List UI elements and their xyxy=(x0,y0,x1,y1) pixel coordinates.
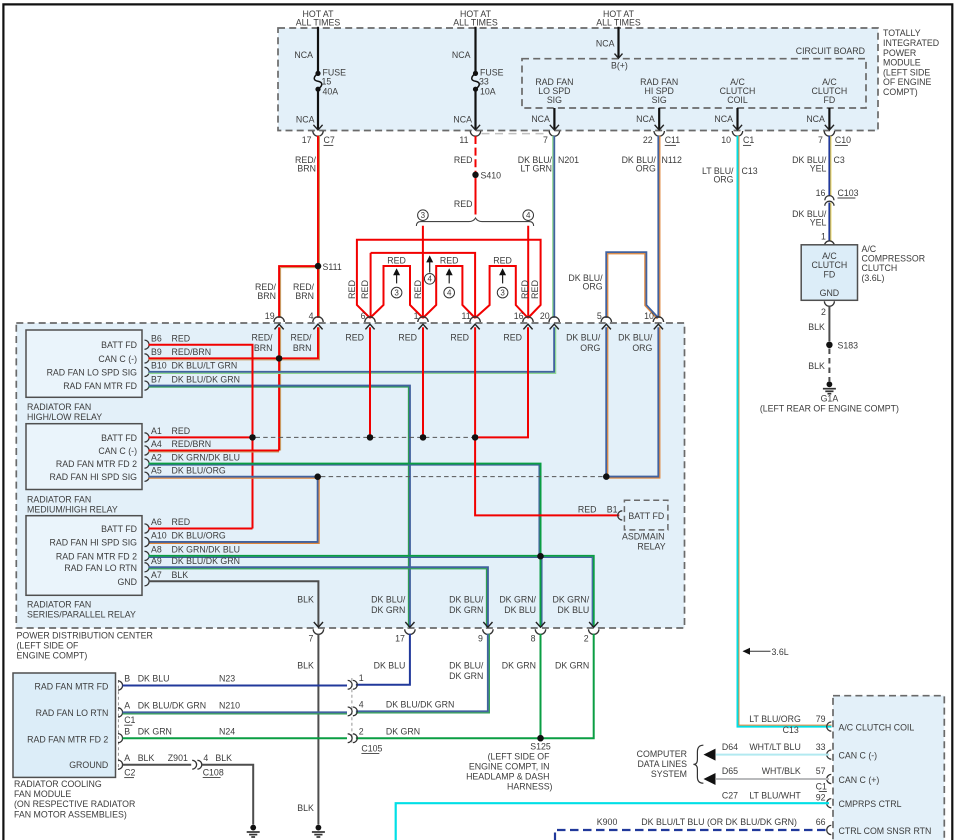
svg-text:3: 3 xyxy=(421,211,426,220)
PDC top pin 11 xyxy=(470,317,480,322)
svg-text:C1: C1 xyxy=(816,781,827,791)
svg-text:2: 2 xyxy=(584,633,589,643)
svg-text:ASD/MAIN: ASD/MAIN xyxy=(622,532,665,542)
svg-text:(ON RESPECTIVE RADIATOR: (ON RESPECTIVE RADIATOR xyxy=(14,799,135,809)
svg-text:B10: B10 xyxy=(151,361,167,371)
Radiator Cooling Fan Module box M1 xyxy=(13,673,116,777)
wire: fuse 33 output NCA to pin 11 xyxy=(474,89,476,129)
svg-text:YEL: YEL xyxy=(810,217,827,227)
svg-text:C27: C27 xyxy=(722,791,738,801)
connector 4 C108 xyxy=(192,760,196,769)
PDC bottom pin 8 xyxy=(536,622,545,627)
Radiator Fan High/Low Relay box K1 xyxy=(26,330,142,397)
wire: DK GRN from PDC pin 2 to splice S125 xyxy=(541,634,594,738)
ground for PDC pin 7 BLK wire xyxy=(316,825,322,831)
wire: RED junction column B6-A1-A6 xyxy=(252,345,254,529)
svg-text:NCA: NCA xyxy=(714,114,733,124)
svg-text:(LEFT REAR OF ENGINE COMPT): (LEFT REAR OF ENGINE COMPT) xyxy=(760,403,899,413)
svg-text:DK BLU/: DK BLU/ xyxy=(566,332,601,342)
svg-text:A: A xyxy=(124,700,130,710)
wire: RAD FAN HI SPD SIG NCA out of circuit board xyxy=(658,108,660,130)
svg-text:DK BLU: DK BLU xyxy=(374,661,406,671)
wire: RED link a (pin 6 to pin 1) xyxy=(370,266,423,318)
svg-text:5: 5 xyxy=(597,311,602,321)
fuse FUSE 15 40A xyxy=(315,71,320,76)
PDC top pin 20 xyxy=(549,317,559,322)
svg-text:RED: RED xyxy=(503,332,522,342)
connector pin CMPRPS CTRL xyxy=(827,799,832,808)
svg-text:1: 1 xyxy=(414,311,419,321)
svg-text:HEADLAMP & DASH: HEADLAMP & DASH xyxy=(466,771,549,781)
svg-text:ORG: ORG xyxy=(580,343,600,353)
PDC top pin 1 xyxy=(418,317,428,322)
svg-text:(LEFT SIDE OF: (LEFT SIDE OF xyxy=(17,641,80,651)
svg-text:BRN: BRN xyxy=(295,291,314,301)
svg-text:DK GRN: DK GRN xyxy=(386,726,420,736)
svg-text:HIGH/LOW RELAY: HIGH/LOW RELAY xyxy=(27,412,102,422)
svg-text:BATT FD: BATT FD xyxy=(101,340,137,350)
svg-text:A7: A7 xyxy=(151,570,162,580)
svg-text:RED/: RED/ xyxy=(251,332,273,342)
svg-text:LT BLU/WHT: LT BLU/WHT xyxy=(749,791,801,801)
wire: DK BLU/YEL C3 from TIPM pin 7 C10 to connector C103 xyxy=(828,136,830,196)
svg-text:DATA LINES: DATA LINES xyxy=(637,759,687,769)
svg-text:S125: S125 xyxy=(530,742,551,752)
svg-text:ALL TIMES: ALL TIMES xyxy=(596,18,641,28)
svg-text:DK GRN: DK GRN xyxy=(449,605,483,615)
wire: DK BLU/ORG risers pins 5 and 10 to bus junction xyxy=(605,327,607,476)
svg-text:DK BLU: DK BLU xyxy=(557,605,589,615)
svg-text:DK BLU/LT GRN: DK BLU/LT GRN xyxy=(172,361,238,371)
svg-text:RED: RED xyxy=(172,333,191,343)
svg-text:WHT/BLK: WHT/BLK xyxy=(762,766,801,776)
svg-text:S111: S111 xyxy=(323,262,342,272)
svg-text:A1: A1 xyxy=(151,426,162,436)
svg-text:BLK: BLK xyxy=(297,803,314,813)
ASD/Main Relay box xyxy=(624,500,668,530)
svg-text:C105: C105 xyxy=(361,743,382,753)
svg-text:10: 10 xyxy=(644,311,654,321)
wire: RED/BRN from A4 to junction xyxy=(149,450,280,452)
svg-text:4: 4 xyxy=(427,275,432,284)
svg-text:B6: B6 xyxy=(151,333,162,343)
PDC top pin 16 xyxy=(523,317,533,322)
wire: RED from TIPM pin 11 to splice S410 (dashed) xyxy=(475,136,477,172)
svg-text:YEL: YEL xyxy=(810,163,827,173)
PDC top pin 4 xyxy=(313,317,323,322)
svg-text:RED: RED xyxy=(493,255,512,265)
svg-text:RAD FAN LO RTN: RAD FAN LO RTN xyxy=(36,708,109,718)
svg-text:RED: RED xyxy=(454,199,473,209)
svg-text:HARNESS): HARNESS) xyxy=(507,781,553,791)
wire: A/C CLUTCH COIL NCA out of circuit board xyxy=(736,108,738,130)
wire: RED/BRN junction down to A4 xyxy=(278,358,280,450)
svg-text:(3.6L): (3.6L) xyxy=(862,273,885,283)
svg-text:A5: A5 xyxy=(151,465,162,475)
svg-text:RAD FAN MTR FD 2: RAD FAN MTR FD 2 xyxy=(56,551,137,561)
svg-text:RAD FAN MTR FD 2: RAD FAN MTR FD 2 xyxy=(56,459,137,469)
svg-text:92: 92 xyxy=(816,793,826,803)
svg-text:2: 2 xyxy=(821,307,826,317)
ground G1A (left rear of engine compt) xyxy=(827,381,833,387)
svg-text:11: 11 xyxy=(461,311,470,321)
PDC top pin 19 xyxy=(274,317,284,322)
wire: RED link b (pin 1 to pin 11) xyxy=(423,266,475,318)
wire: DK BLU/LT GRN from B10 to PDC pin 20 xyxy=(149,327,555,372)
svg-text:RED/BRN: RED/BRN xyxy=(172,439,212,449)
svg-text:33: 33 xyxy=(816,742,826,752)
svg-text:RED: RED xyxy=(530,280,540,300)
svg-text:BATT FD: BATT FD xyxy=(628,511,664,521)
svg-text:RADIATOR COOLING: RADIATOR COOLING xyxy=(14,779,102,789)
svg-text:DK BLU/ORG: DK BLU/ORG xyxy=(172,531,226,541)
wire: DK BLU from PDC pin 17 to connector C105 pin 1 xyxy=(356,634,410,685)
svg-text:RADIATOR FAN: RADIATOR FAN xyxy=(27,494,91,504)
svg-text:RAD FAN HI SPD SIG: RAD FAN HI SPD SIG xyxy=(50,472,138,482)
wire: DK GRN from PDC pin 8 to splice S125 xyxy=(540,634,542,738)
svg-text:6: 6 xyxy=(361,311,366,321)
wire: RED riser pin 16 to bus xyxy=(475,327,528,437)
svg-text:RED/BRN: RED/BRN xyxy=(172,347,212,357)
wire: RED from B6 to junction column xyxy=(149,345,253,438)
svg-text:A: A xyxy=(124,753,130,763)
svg-text:D64: D64 xyxy=(722,742,738,752)
svg-text:A/C CLUTCH COIL: A/C CLUTCH COIL xyxy=(839,722,915,732)
svg-text:G1A: G1A xyxy=(821,393,839,403)
svg-text:CMPRPS CTRL: CMPRPS CTRL xyxy=(839,799,902,809)
wire: RED drop 3 from brace to pin 1 xyxy=(422,226,424,318)
svg-text:NCA: NCA xyxy=(453,115,472,125)
svg-text:C7: C7 xyxy=(324,135,335,145)
svg-text:RED: RED xyxy=(578,504,597,514)
wire: DK BLU/YEL from C103 to A/C compressor clutch pin 1 xyxy=(828,203,830,241)
svg-text:B(+): B(+) xyxy=(611,61,628,71)
splice S125 (left side of engine compt, in headlamp and dash harness) xyxy=(537,735,543,741)
svg-text:C3: C3 xyxy=(834,155,845,165)
svg-text:MODULE: MODULE xyxy=(883,58,921,68)
svg-text:RAD FAN HI SPD SIG: RAD FAN HI SPD SIG xyxy=(50,538,138,548)
svg-text:RED: RED xyxy=(360,280,370,300)
PDC bottom pin 2 xyxy=(589,622,598,627)
svg-text:DK BLU: DK BLU xyxy=(138,674,170,684)
svg-text:C1: C1 xyxy=(743,135,754,145)
svg-text:SYSTEM: SYSTEM xyxy=(651,769,687,779)
connector pin CTRL COM SNSR RTN xyxy=(827,825,832,834)
svg-text:N23: N23 xyxy=(219,674,235,684)
junction A5/A10 xyxy=(315,474,321,480)
svg-text:10: 10 xyxy=(721,135,731,145)
svg-text:RED: RED xyxy=(398,332,417,342)
svg-text:GND: GND xyxy=(820,288,840,298)
svg-text:9: 9 xyxy=(478,633,483,643)
svg-text:RED/: RED/ xyxy=(290,332,312,342)
svg-text:4: 4 xyxy=(203,753,208,763)
svg-text:BLK: BLK xyxy=(172,570,189,580)
distribution brace with circled 3 and 4 xyxy=(416,218,533,226)
svg-text:DK GRN/DK BLU: DK GRN/DK BLU xyxy=(172,452,240,462)
svg-text:BLK: BLK xyxy=(297,594,314,604)
svg-text:LT GRN: LT GRN xyxy=(521,163,552,173)
svg-text:RAD FAN MTR FD: RAD FAN MTR FD xyxy=(63,381,137,391)
svg-text:FAN MOTOR ASSEMBLIES): FAN MOTOR ASSEMBLIES) xyxy=(14,809,127,819)
svg-text:NCA: NCA xyxy=(294,50,313,60)
wire: RED/BRN from B9 to pins 19 and 4 xyxy=(149,327,319,358)
svg-text:DK GRN/: DK GRN/ xyxy=(499,594,536,604)
svg-text:A6: A6 xyxy=(151,517,162,527)
svg-text:RED: RED xyxy=(345,332,364,342)
svg-text:RED: RED xyxy=(450,332,469,342)
wire: DK BLU/LT BLU K900 CTRL COM SNSR RTN (dashed) xyxy=(555,830,829,840)
dashed bus A5 row xyxy=(321,476,606,478)
svg-text:C11: C11 xyxy=(665,135,681,145)
svg-text:SIG: SIG xyxy=(652,95,667,105)
svg-text:A8: A8 xyxy=(151,545,162,555)
wire: RAD FAN LO SPD SIG NCA out of circuit board xyxy=(553,108,555,130)
wire: RED riser pin 6 xyxy=(369,327,371,437)
svg-text:NCA: NCA xyxy=(296,115,315,125)
svg-text:DK GRN/: DK GRN/ xyxy=(553,594,590,604)
svg-text:A2: A2 xyxy=(151,452,162,462)
svg-text:DK GRN: DK GRN xyxy=(449,671,483,681)
wire: feed 3 NCA to circuit board B(+) xyxy=(617,27,619,58)
svg-text:DK BLU/ORG: DK BLU/ORG xyxy=(172,465,226,475)
svg-text:DK BLU/DK GRN: DK BLU/DK GRN xyxy=(172,556,240,566)
svg-text:FD: FD xyxy=(824,270,836,280)
wire: DK BLU/ORG from A5 to junction xyxy=(149,476,318,478)
wire: fuse 15 output NCA to pin 17 xyxy=(317,89,319,129)
wire: RED riser pin 1 xyxy=(422,327,424,437)
svg-text:NCA: NCA xyxy=(531,114,550,124)
svg-text:ALL TIMES: ALL TIMES xyxy=(453,18,498,28)
wire: RED/BRN pin 19 down to B9 junction xyxy=(278,327,280,358)
svg-text:RED: RED xyxy=(520,280,530,300)
svg-text:16: 16 xyxy=(514,311,524,321)
svg-text:20: 20 xyxy=(540,311,550,321)
svg-text:COIL: COIL xyxy=(727,95,748,105)
svg-text:BLK: BLK xyxy=(808,322,825,332)
svg-text:RED: RED xyxy=(172,517,191,527)
svg-text:INTEGRATED: INTEGRATED xyxy=(883,38,939,48)
svg-text:DK BLU/DK GRN: DK BLU/DK GRN xyxy=(172,374,240,384)
wire: RED from A1 to junction column xyxy=(149,436,253,438)
svg-text:DK GRN: DK GRN xyxy=(371,605,405,615)
svg-text:B9: B9 xyxy=(151,347,162,357)
svg-text:B: B xyxy=(124,726,130,736)
junction pin 11 riser on bus xyxy=(472,434,478,440)
Radiator Fan Series/Parallel Relay box K3 xyxy=(26,516,142,596)
svg-text:RAD FAN MTR FD: RAD FAN MTR FD xyxy=(35,682,109,692)
svg-text:SERIES/PARALLEL RELAY: SERIES/PARALLEL RELAY xyxy=(27,610,136,620)
svg-text:ENGINE COMPT): ENGINE COMPT) xyxy=(17,651,88,661)
svg-text:3: 3 xyxy=(500,289,505,298)
wire: BLK from PDC pin 7 to ground xyxy=(317,634,319,825)
svg-text:WHT/LT BLU: WHT/LT BLU xyxy=(749,742,800,752)
A/C compressor clutch box U-AC (3.6L) xyxy=(824,241,834,246)
wire: DK GRN/DK BLU junction down to pin 8 xyxy=(540,556,542,627)
junction on B9 wire at pin 19 drop xyxy=(276,355,282,361)
PDC bottom pin 9 xyxy=(483,622,492,627)
svg-text:RED: RED xyxy=(387,255,406,265)
svg-text:CAN C (-): CAN C (-) xyxy=(839,750,878,760)
splice S410 xyxy=(473,172,479,178)
svg-text:N112: N112 xyxy=(662,155,682,165)
wire: RED bus 2 (pin 6 to pin 11) xyxy=(371,253,476,318)
splice S111 xyxy=(315,263,321,269)
wire: RED drop 4 from brace to pin 16 xyxy=(527,226,529,318)
wire: RED/BRN S111 branch to PDC pin 19 xyxy=(279,266,318,318)
wire: BLK from C108 to ground xyxy=(202,765,253,825)
svg-text:D65: D65 xyxy=(722,766,738,776)
svg-text:MEDIUM/HIGH RELAY: MEDIUM/HIGH RELAY xyxy=(27,504,118,514)
connector pin 17 C7 on TIPM xyxy=(313,131,323,136)
splice S183 xyxy=(826,342,832,348)
svg-text:BRN: BRN xyxy=(297,163,316,173)
svg-text:CAN C (+): CAN C (+) xyxy=(839,775,880,785)
TIPM module box (Totally Integrated Power Module) xyxy=(278,28,878,131)
label arrow circled 4 (drop 3 wire) xyxy=(429,260,431,273)
connector pin 22 C11 on TIPM xyxy=(654,131,664,136)
wire: DK BLU/LT GRN N201 from TIPM pin 7 to PDC pin 20 xyxy=(553,136,555,318)
connector pin 7 C10 on TIPM xyxy=(824,131,834,136)
wire: DK GRN N24 fan module to C105 pin 2 xyxy=(123,737,348,739)
wire: LT BLU/ORG C13 from TIPM pin 10 to A/C clutch coil pin xyxy=(738,136,832,727)
svg-text:4: 4 xyxy=(309,311,314,321)
svg-text:BRN: BRN xyxy=(257,291,276,301)
svg-text:RED: RED xyxy=(172,426,191,436)
svg-text:BRN: BRN xyxy=(254,343,273,353)
svg-text:3: 3 xyxy=(394,289,399,298)
svg-text:C13: C13 xyxy=(742,166,758,176)
wire: DK BLU/ORG junction down to A10 xyxy=(149,477,318,542)
svg-text:FD: FD xyxy=(824,95,836,105)
svg-text:DK BLU/: DK BLU/ xyxy=(449,594,484,604)
svg-text:CAN C (-): CAN C (-) xyxy=(98,354,137,364)
wire: DK GRN/DK BLU from A2 down to pin 8 bus xyxy=(149,464,541,557)
junction bus pins 5/10 xyxy=(603,473,609,479)
connector pin 10 C1 on TIPM xyxy=(732,131,742,136)
connector boundary line pins 11-7 xyxy=(482,133,549,135)
circuit board box inside TIPM xyxy=(522,59,866,108)
wire: WHT/BLK D65 CAN C (+) to computer data lines xyxy=(716,778,829,780)
svg-text:NCA: NCA xyxy=(596,38,615,48)
svg-text:79: 79 xyxy=(816,714,826,724)
PDC top pin 6 xyxy=(365,317,375,322)
svg-text:COMPUTER: COMPUTER xyxy=(637,749,687,759)
svg-text:RAD FAN LO RTN: RAD FAN LO RTN xyxy=(64,563,137,573)
wire: DK BLU/DK GRN from A9 to pin 9 xyxy=(149,567,488,627)
ground for fan module BLK wire xyxy=(250,825,256,831)
svg-text:B: B xyxy=(124,674,130,684)
svg-text:ENGINE COMPT, IN: ENGINE COMPT, IN xyxy=(469,761,550,771)
svg-text:40A: 40A xyxy=(323,87,339,97)
svg-text:A4: A4 xyxy=(151,439,162,449)
svg-text:FAN MODULE: FAN MODULE xyxy=(14,789,71,799)
wire: RED/BRN S111 to PDC pin 4 xyxy=(317,266,319,318)
svg-text:RADIATOR FAN: RADIATOR FAN xyxy=(27,402,91,412)
wire: LT BLU/WHT C27 CMPRPS CTRL xyxy=(396,803,829,840)
svg-text:DK GRN/DK BLU: DK GRN/DK BLU xyxy=(172,545,240,555)
svg-text:57: 57 xyxy=(816,766,826,776)
wire: WHT/LT BLU D64 CAN C (-) to computer data lines xyxy=(716,754,829,756)
svg-text:11: 11 xyxy=(459,135,468,145)
svg-text:C1: C1 xyxy=(124,715,135,725)
svg-text:2: 2 xyxy=(359,726,364,736)
svg-text:GROUND: GROUND xyxy=(69,760,108,770)
svg-text:C13: C13 xyxy=(783,725,799,735)
svg-text:CLUTCH: CLUTCH xyxy=(862,263,898,273)
wire: BLK from A7 GND to pin 7 xyxy=(149,581,319,627)
wire: BLK from A/C clutch GND to splice S183 xyxy=(828,306,830,341)
PDC top pin 10 xyxy=(653,317,663,322)
svg-text:DK BLU/: DK BLU/ xyxy=(371,594,406,604)
svg-text:C108: C108 xyxy=(203,767,224,777)
svg-text:DK BLU/: DK BLU/ xyxy=(618,332,653,342)
svg-text:POWER DISTRIBUTION CENTER: POWER DISTRIBUTION CENTER xyxy=(17,631,153,641)
svg-text:RADIATOR FAN: RADIATOR FAN xyxy=(27,600,91,610)
svg-text:ORG: ORG xyxy=(713,174,733,184)
wire: RED riser pin 11 down to ASD relay feed xyxy=(475,327,619,515)
wire: DK BLU/DK GRN from B7 down to PDC pin 17 xyxy=(149,386,410,627)
svg-text:B7: B7 xyxy=(151,374,162,384)
wire: RED from A6 to junction column xyxy=(149,528,253,530)
svg-text:C103: C103 xyxy=(838,188,859,198)
connector pin CAN C (-) xyxy=(827,750,832,759)
connector pin 2 of A/C compressor clutch xyxy=(824,301,834,306)
svg-text:K900: K900 xyxy=(597,817,618,827)
svg-text:7: 7 xyxy=(308,633,313,643)
svg-text:RAD FAN MTR FD 2: RAD FAN MTR FD 2 xyxy=(27,734,108,744)
svg-text:BATT FD: BATT FD xyxy=(101,524,137,534)
PDC bottom pin 7 xyxy=(314,622,323,627)
junction A2/A8 over pin 8 xyxy=(537,553,543,559)
svg-text:N24: N24 xyxy=(219,726,235,736)
svg-text:10A: 10A xyxy=(480,87,496,97)
svg-text:8: 8 xyxy=(531,633,536,643)
svg-text:RELAY: RELAY xyxy=(637,542,665,552)
wire: RED link c (pin 11 to pin 16) xyxy=(475,266,528,318)
junction pin 6 riser on bus xyxy=(367,434,373,440)
svg-text:OF ENGINE: OF ENGINE xyxy=(883,77,932,87)
svg-text:3.6L: 3.6L xyxy=(772,647,789,657)
svg-text:BLK: BLK xyxy=(297,661,314,671)
label 3.6L pointer xyxy=(744,650,771,652)
svg-text:RED: RED xyxy=(347,280,357,300)
svg-text:DK BLU/DK GRN: DK BLU/DK GRN xyxy=(386,700,454,710)
Radiator Fan Medium/High Relay box K2 xyxy=(26,424,142,490)
svg-text:ALL TIMES: ALL TIMES xyxy=(296,18,341,28)
svg-text:22: 22 xyxy=(643,135,653,145)
svg-text:DK BLU/LT BLU (OR DK BLU/DK GR: DK BLU/LT BLU (OR DK BLU/DK GRN) xyxy=(641,817,797,827)
svg-text:15: 15 xyxy=(322,77,332,87)
svg-text:NCA: NCA xyxy=(806,114,825,124)
wire: BLK dashed from S183 to ground G1A xyxy=(828,349,830,382)
Power Distribution Center box xyxy=(16,323,684,628)
svg-text:19: 19 xyxy=(265,311,275,321)
PDC top pin 5 xyxy=(601,317,611,322)
svg-text:4: 4 xyxy=(526,211,531,220)
svg-text:DK GRN: DK GRN xyxy=(502,661,536,671)
svg-text:17: 17 xyxy=(302,135,312,145)
svg-text:TOTALLY: TOTALLY xyxy=(883,28,921,38)
svg-text:COMPRESSOR: COMPRESSOR xyxy=(862,254,926,264)
wire: BLK Z901 fan module ground to C108 xyxy=(123,764,192,766)
svg-text:16: 16 xyxy=(816,188,826,198)
connector pin 7 on TIPM xyxy=(549,131,559,136)
svg-text:ORG: ORG xyxy=(636,163,656,173)
svg-text:LT BLU/ORG: LT BLU/ORG xyxy=(749,714,801,724)
svg-text:DK GRN: DK GRN xyxy=(138,726,172,736)
svg-text:7: 7 xyxy=(818,135,823,145)
